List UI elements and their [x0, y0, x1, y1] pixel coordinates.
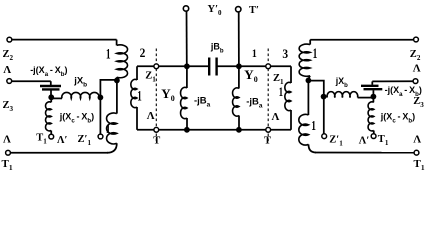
svg-text:Λ: Λ [413, 134, 421, 146]
svg-text:T: T [264, 136, 271, 147]
svg-text:jXb: jXb [73, 76, 87, 89]
dashed reference plane 3-3 [267, 49, 269, 142]
winding 1 upper (left block) [116, 40, 118, 46]
wire to capacitor [12, 80, 51, 82]
node T1/Lambda-prime [49, 134, 54, 139]
junction dot (cap/jXb) [48, 94, 54, 100]
svg-text:1: 1 [137, 87, 142, 104]
middle bottom wire [137, 129, 291, 131]
svg-text:1: 1 [252, 47, 257, 60]
svg-text:Y0: Y0 [161, 86, 174, 103]
terminal Lambda/Z3 (right) [413, 79, 418, 84]
terminal Lambda/Z3 [7, 79, 12, 84]
wire L-connector (right) [308, 81, 323, 97]
svg-text:1: 1 [311, 117, 316, 133]
svg-text:1: 1 [106, 45, 111, 62]
svg-text:Z3: Z3 [3, 100, 14, 113]
svg-text:Z′1: Z′1 [78, 134, 92, 147]
junction dot (right jXb left end) [321, 94, 327, 100]
wire top-left [12, 39, 117, 41]
svg-text:jBb: jBb [210, 41, 224, 54]
svg-text:Λ′: Λ′ [359, 135, 370, 146]
inductor jXb (horizontal) [51, 97, 62, 99]
svg-text:Z2: Z2 [3, 49, 14, 62]
middle right edge winding 1 [290, 66, 292, 83]
node circle (plane2 top) [154, 64, 159, 69]
svg-text:Λ: Λ [3, 64, 11, 76]
terminal Z2 (top-right) [414, 37, 419, 42]
wire down to Z1-prime node [99, 97, 101, 134]
terminal T-prime [236, 7, 241, 12]
wire T-prime down [238, 12, 240, 66]
svg-text:j(Xc - Xb): j(Xc - Xb) [59, 112, 94, 125]
wire down to Z1-prime node (right) [323, 97, 325, 134]
junction dot (right cap) [371, 94, 377, 100]
dashed reference plane 2-2 [155, 49, 157, 142]
svg-text:Y′0: Y′0 [208, 4, 223, 17]
bottom wire (left) [10, 152, 108, 154]
svg-text:Z2: Z2 [410, 49, 421, 62]
svg-text:-jBa: -jBa [246, 96, 263, 109]
middle left edge winding 1 [136, 66, 138, 80]
terminal Y0-prime [183, 6, 188, 11]
svg-text:Z1: Z1 [273, 73, 284, 86]
capacitor -j(Xa-Xb) (right) [372, 90, 374, 95]
svg-text:T1: T1 [414, 158, 425, 172]
svg-text:Λ: Λ [272, 111, 280, 123]
svg-text:Y0: Y0 [244, 67, 257, 84]
junction dot (shunt1 bottom) [184, 127, 190, 133]
svg-text:T1: T1 [36, 132, 47, 145]
capacitor -j(Xa-Xb) [50, 81, 52, 85]
svg-text:Λ: Λ [3, 134, 11, 146]
winding 1 lower (right block) [307, 80, 309, 115]
shunt inductor -jBa (right) [238, 66, 240, 88]
inductor j(Xc-Xb) (vertical) [50, 99, 52, 102]
junction dot (shunt2 bottom) [236, 127, 242, 133]
node Z1-prime (left) [98, 134, 103, 139]
svg-text:Z1: Z1 [145, 71, 156, 84]
node Lambda-prime/T1 (right) [371, 134, 376, 139]
capacitor jBb (series) [208, 58, 210, 76]
svg-text:T1: T1 [2, 158, 13, 172]
junction dot (right winding tap) [306, 78, 312, 84]
inductor jXb (right, horizontal) [327, 92, 358, 98]
terminal T1 (bottom-left) [6, 150, 11, 155]
junction dot (shunt2 top) [236, 63, 242, 69]
winding 1 upper (right block) [309, 40, 311, 45]
svg-text:jXb: jXb [335, 76, 348, 89]
svg-text:2: 2 [140, 45, 146, 60]
svg-text:1: 1 [279, 85, 284, 99]
terminal T1 (bottom-right) [414, 150, 419, 155]
node Z1-prime (right) [322, 134, 327, 139]
svg-text:-jBa: -jBa [194, 95, 211, 108]
svg-text:T1: T1 [378, 134, 389, 147]
inductor j(Xc-Xb) (right, vertical) [372, 98, 374, 102]
svg-text:T: T [153, 136, 160, 147]
node circle (plane3 bottom) [266, 127, 271, 132]
svg-text:1: 1 [313, 45, 318, 62]
svg-text:-j(Xa - Xb): -j(Xa - Xb) [30, 65, 67, 78]
junction dot (winding tap) [114, 78, 120, 84]
svg-text:Z3: Z3 [413, 96, 424, 109]
svg-text:3: 3 [282, 46, 288, 61]
wire Y0-prime down [186, 11, 188, 66]
wire top-right [310, 39, 413, 41]
terminal Z2 (top-left) [7, 37, 12, 42]
node circle (plane3 top) [266, 64, 271, 69]
svg-text:T′: T′ [249, 5, 259, 16]
svg-text:1: 1 [106, 123, 111, 137]
junction dot (jXb right) [98, 95, 104, 101]
winding 1 lower (left block) [116, 80, 118, 113]
svg-text:j(Xc - Xb): j(Xc - Xb) [380, 111, 415, 124]
node circle (plane2 bottom) [154, 127, 159, 132]
bottom wire (right) [315, 152, 414, 154]
svg-text:Z′1: Z′1 [329, 134, 343, 147]
shunt inductor -jBa (left) [186, 66, 188, 88]
svg-text:Λ: Λ [147, 110, 155, 122]
middle top wire [137, 65, 291, 67]
svg-text:Λ: Λ [413, 63, 421, 75]
svg-text:Λ′: Λ′ [57, 135, 68, 146]
junction dot (shunt1 top) [184, 63, 190, 69]
wire L-connector to winding tap [100, 80, 117, 98]
